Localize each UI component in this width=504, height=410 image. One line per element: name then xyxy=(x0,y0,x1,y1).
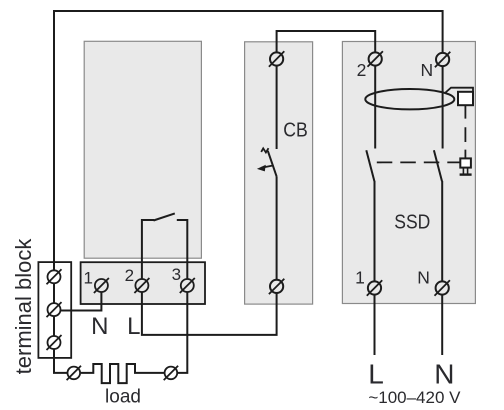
SSD terminal 2 (top) xyxy=(368,51,383,66)
test resistor square xyxy=(458,92,473,105)
relay switch inside load device xyxy=(142,220,154,279)
SSD pole N lower wire xyxy=(441,181,443,281)
SSD pole 2-1 contact blade xyxy=(366,150,374,181)
wire: CB top terminal to SSD terminal 2 xyxy=(277,31,376,52)
CB trip arrow xyxy=(262,165,274,167)
svg-text:N: N xyxy=(420,60,433,80)
svg-text:1: 1 xyxy=(355,267,365,287)
SSD body xyxy=(342,42,475,304)
load resistive element (meander) xyxy=(81,364,164,383)
terminal block terminal bottom xyxy=(47,335,62,350)
terminal block terminal top xyxy=(47,269,62,284)
svg-text:CB: CB xyxy=(283,120,308,142)
svg-text:3: 3 xyxy=(172,265,181,284)
CB contact blade xyxy=(268,151,277,177)
test button bar xyxy=(460,173,472,175)
load device body xyxy=(84,41,201,258)
CB internal wire lower xyxy=(276,176,278,279)
wire: strip terminal 2 to CB bottom terminal xyxy=(142,292,277,335)
svg-text:L: L xyxy=(368,359,384,390)
svg-text:terminal block: terminal block xyxy=(11,238,36,375)
CB internal wire upper xyxy=(276,66,278,149)
wire: strip terminal 3 to load right terminal xyxy=(177,292,187,373)
SSD terminal N (bottom) xyxy=(435,280,450,295)
circuit breaker CB body xyxy=(245,42,313,304)
strip terminal 3 xyxy=(180,278,195,293)
load left terminal xyxy=(67,366,81,380)
wire: terminal block bottom terminal to load left terminal xyxy=(54,349,67,373)
wire: terminal block internal verticals xyxy=(53,283,55,303)
wire N: terminal block top to SSD top N terminal (outer loop) xyxy=(54,11,443,270)
test resistor link roof xyxy=(446,88,474,93)
SSD pole 2-1 upper wire xyxy=(374,66,376,149)
terminal block box xyxy=(38,262,71,358)
wire: strip terminal 1 to terminal block middle terminal xyxy=(61,292,102,311)
SSD pole 2-1 lower wire xyxy=(374,181,376,281)
SSD terminal 1 (bottom) xyxy=(367,280,382,295)
current transformer core (ellipse) xyxy=(365,89,454,109)
SSD pole N upper wire xyxy=(442,66,444,148)
svg-text:2: 2 xyxy=(125,266,134,285)
load right terminal xyxy=(164,366,178,380)
test circuit dashed vertical xyxy=(464,105,466,158)
strip terminal 2 xyxy=(134,278,149,293)
svg-text:~100–420 V: ~100–420 V xyxy=(368,388,461,407)
terminal strip of load device xyxy=(81,262,205,304)
strip terminal 1 xyxy=(94,278,109,293)
svg-text:load: load xyxy=(105,387,141,408)
svg-text:N: N xyxy=(434,359,454,390)
CB bottom terminal xyxy=(269,279,284,294)
wire: SSD terminal 1 stub to L xyxy=(374,295,376,355)
svg-text:2: 2 xyxy=(357,60,367,80)
SSD pole N contact blade xyxy=(434,150,442,181)
svg-text:N: N xyxy=(91,313,108,340)
test button legs xyxy=(462,168,464,174)
wire: SSD terminal N stub to N xyxy=(441,295,443,355)
svg-text:N: N xyxy=(417,267,430,287)
SSD terminal N (top) xyxy=(435,52,450,67)
svg-text:L: L xyxy=(127,313,140,340)
CB latch hook xyxy=(261,148,268,152)
CB top terminal xyxy=(269,51,284,66)
svg-text:SSD: SSD xyxy=(394,212,430,234)
svg-text:1: 1 xyxy=(83,269,92,288)
test button square xyxy=(460,158,471,167)
SSD trip linkage dashed line xyxy=(377,161,461,163)
terminal block terminal middle xyxy=(47,302,62,317)
